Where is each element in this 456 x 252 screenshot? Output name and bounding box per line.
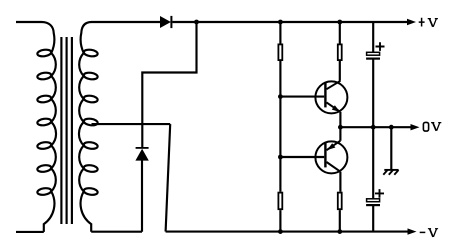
arrow -V — [408, 228, 417, 234]
primary loop 1 — [37, 49, 52, 57]
primary loop 6 — [37, 164, 52, 172]
wire D2 anode vertical — [141, 160, 143, 232]
wire center tap drop (slanted) — [166, 124, 171, 232]
node junction dot D1 output — [194, 20, 199, 25]
capacitor C1 plus sign — [376, 42, 385, 51]
wire secondary bottom to D2 anode — [91, 231, 142, 233]
primary loop 7 — [37, 187, 52, 195]
resistor R2 chain wires — [339, 22, 342, 232]
capacitor C2 plus sign — [375, 189, 384, 198]
secondary loop 7 — [83, 187, 98, 195]
node junction dot 0V capacitor — [371, 125, 376, 130]
diode D2 — [135, 147, 148, 161]
primary loop 2 — [37, 72, 52, 80]
wire D2 cathode up and over to D1 junction — [142, 22, 196, 148]
resistor R2 — [338, 44, 342, 60]
wire ground drop — [390, 127, 392, 169]
wire Q1 base — [280, 96, 324, 98]
arrow +V — [407, 19, 416, 25]
secondary loop 1 — [83, 49, 98, 57]
label +V — [419, 18, 438, 27]
transformer T1 primary lead top — [16, 21, 42, 23]
node junction dot -V rail R4 — [337, 229, 342, 234]
resistor R3 — [278, 193, 282, 210]
node junction dot -V rail R3 — [278, 229, 283, 234]
ground symbol — [383, 170, 398, 175]
resistor R1 — [278, 44, 282, 60]
transformer core line 3 — [71, 37, 73, 224]
transformer core line 2 — [66, 37, 68, 224]
-V rail — [166, 231, 410, 233]
transformer core line 1 — [60, 37, 62, 224]
node junction dot +V rail R2 — [337, 20, 342, 25]
node junction dot Q1 base — [278, 94, 283, 99]
primary loop 5 — [37, 141, 52, 149]
secondary loop 5 — [83, 141, 98, 149]
wire Q2 base — [280, 156, 324, 158]
resistor R1 chain wires — [279, 22, 281, 232]
wire center tap — [92, 123, 171, 125]
secondary loop 2 — [83, 72, 98, 80]
node junction dot Q2 base — [278, 155, 283, 160]
secondary loop 3 — [83, 95, 98, 103]
transformer T1 primary winding — [42, 22, 57, 232]
0V rail — [340, 126, 411, 128]
node junction dot 0V ground — [389, 125, 394, 130]
label 0V — [423, 122, 441, 131]
arrow 0V — [411, 124, 420, 130]
secondary loop 6 — [83, 164, 98, 172]
primary loop 3 — [37, 95, 52, 103]
transformer T1 primary lead bottom — [16, 231, 44, 233]
resistor R4 — [338, 193, 342, 210]
transformer T1 secondary winding — [79, 22, 160, 232]
label -V — [420, 228, 438, 237]
+V rail — [172, 21, 410, 23]
diode D1 — [160, 16, 172, 28]
primary loop 4 — [37, 118, 52, 126]
node junction dot +V rail R1 — [278, 20, 283, 25]
capacitor C1 — [366, 52, 380, 59]
transistor Q1 — [315, 81, 347, 114]
transistor Q2 — [315, 141, 347, 174]
capacitor chain wires — [372, 22, 374, 232]
capacitor C2 — [366, 199, 380, 206]
node junction dot emitters 0V — [338, 125, 343, 130]
secondary loop 4 — [83, 118, 98, 126]
